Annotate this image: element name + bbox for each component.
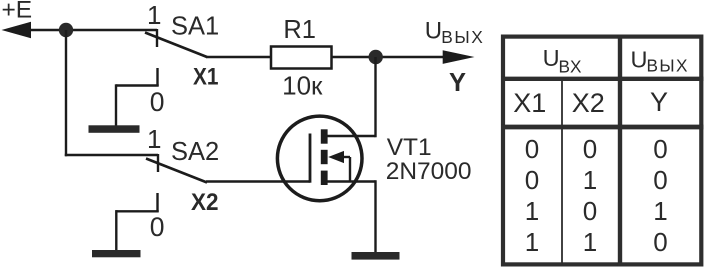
wire source tap xyxy=(328,180,376,182)
ground bar for VT1 source xyxy=(352,252,400,260)
svg-text:0: 0 xyxy=(653,134,667,164)
svg-text:U: U xyxy=(425,17,442,44)
svg-text:ВЫХ: ВЫХ xyxy=(441,27,483,47)
ground bar for SA1 contact 0 xyxy=(89,125,140,133)
svg-text:1: 1 xyxy=(653,196,667,226)
resistor R1 body xyxy=(271,47,332,69)
wire substrate to source (vertical) xyxy=(349,157,351,182)
svg-text:ВХ: ВХ xyxy=(559,57,583,77)
wire R1 to output arrow xyxy=(333,56,445,58)
wire SA2 contact 0 to ground (vertical) xyxy=(115,210,117,251)
svg-text:SA1: SA1 xyxy=(171,12,219,40)
truth table horizontal line under X1 X2 Y row xyxy=(501,125,704,130)
wire source to ground xyxy=(374,180,376,252)
node junction dot at +E rail xyxy=(59,23,73,37)
wire SA1 contact 0 to ground (vertical) xyxy=(115,84,117,126)
switch SA1 contact 0 stub xyxy=(156,68,158,86)
svg-text:0: 0 xyxy=(653,227,667,257)
transistor VT1 gate electrode xyxy=(309,134,312,183)
arrow to +E supply xyxy=(2,22,32,38)
svg-text:0: 0 xyxy=(583,134,597,164)
svg-text:VT1: VT1 xyxy=(387,134,432,161)
svg-text:Y: Y xyxy=(449,69,466,97)
switch SA1 blade xyxy=(145,33,207,58)
svg-text:1: 1 xyxy=(525,196,539,226)
wire X2 from SA2 blade to gate xyxy=(206,180,310,182)
svg-text:1: 1 xyxy=(147,0,161,30)
svg-text:0: 0 xyxy=(150,212,165,242)
wire drain to output node xyxy=(374,57,376,137)
svg-text:R1: R1 xyxy=(283,16,316,44)
truth table thick vertical divider (inputs/output) xyxy=(618,35,622,267)
svg-text:X2: X2 xyxy=(191,189,219,216)
truth table thin vertical divider X1/X2 xyxy=(561,81,563,264)
svg-text:SA2: SA2 xyxy=(171,138,219,166)
truth table outer border xyxy=(503,37,701,265)
svg-text:0: 0 xyxy=(150,87,165,117)
switch SA2 blade xyxy=(146,159,207,183)
transistor VT1 substrate arrow xyxy=(328,151,344,163)
svg-text:1: 1 xyxy=(583,227,597,257)
svg-text:Y: Y xyxy=(650,87,668,117)
wire SA1 contact 0 to ground (horizontal) xyxy=(116,84,159,86)
transistor VT1 body circle xyxy=(277,116,362,201)
transistor VT1 source channel bar xyxy=(321,171,328,185)
svg-text:X1: X1 xyxy=(513,88,546,118)
wire X1 from SA1 blade to R1 xyxy=(206,56,270,58)
svg-text:0: 0 xyxy=(525,165,539,195)
wire drain tap xyxy=(328,135,376,137)
transistor VT1 body channel bar xyxy=(321,150,328,164)
svg-text:2N7000: 2N7000 xyxy=(386,158,472,185)
svg-text:0: 0 xyxy=(583,196,597,226)
wire SA2 contact 0 to ground (horizontal) xyxy=(116,210,158,212)
svg-text:10к: 10к xyxy=(282,71,323,101)
svg-text:1: 1 xyxy=(147,124,161,154)
svg-text:+Е: +Е xyxy=(2,0,33,24)
ground bar for SA2 contact 0 xyxy=(92,250,141,257)
svg-text:X2: X2 xyxy=(572,88,605,118)
switch SA1 contact 1 stub xyxy=(156,29,158,47)
svg-text:1: 1 xyxy=(583,165,597,195)
truth table horizontal line under Uвх row xyxy=(501,77,704,81)
wire left vertical rail xyxy=(65,30,67,156)
node output junction dot xyxy=(369,50,383,64)
svg-text:0: 0 xyxy=(653,165,667,195)
svg-text:U: U xyxy=(631,47,648,73)
switch SA2 contact 0 stub xyxy=(156,193,158,212)
wire rail to SA2 contact 1 xyxy=(65,154,158,156)
svg-text:ВЫХ: ВЫХ xyxy=(647,56,689,76)
svg-text:0: 0 xyxy=(525,134,539,164)
wire top rail from arrow to SA1 contact 1 xyxy=(29,29,157,31)
transistor VT1 drain channel bar xyxy=(321,129,328,143)
svg-text:U: U xyxy=(543,45,560,71)
wire substrate to source (horizontal) xyxy=(343,156,350,158)
arrow to Uout xyxy=(443,50,475,64)
svg-text:1: 1 xyxy=(525,227,539,257)
svg-text:X1: X1 xyxy=(193,64,219,91)
switch SA2 contact 1 stub xyxy=(157,154,159,172)
